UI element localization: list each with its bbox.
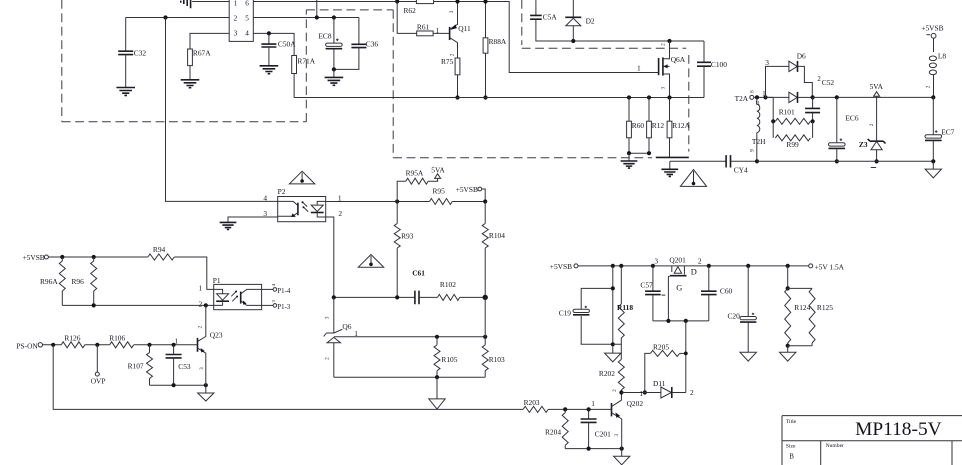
resistor R126	[61, 342, 85, 348]
svg-text:2: 2	[661, 43, 667, 46]
node junction C201 bottom	[587, 447, 591, 451]
svg-text:R126: R126	[64, 333, 80, 342]
resistor R125	[788, 287, 812, 289]
svg-text:3: 3	[234, 30, 238, 38]
svg-text:R124: R124	[794, 303, 810, 312]
node junction R88A bottom	[483, 95, 487, 99]
svg-text:R106: R106	[109, 333, 125, 342]
node junction gate-R105	[435, 335, 439, 339]
svg-text:R95: R95	[433, 187, 446, 196]
svg-text:Z3: Z3	[859, 140, 868, 149]
svg-text:D11: D11	[653, 379, 666, 388]
svg-text:2: 2	[926, 85, 932, 88]
wire pin5 net	[253, 0, 359, 18]
ground (P2 pin3)	[220, 222, 237, 229]
svg-text:1: 1	[234, 0, 238, 8]
resistor R61	[417, 31, 433, 36]
node junction R96 top	[92, 255, 96, 259]
ground (CY4)	[669, 161, 671, 169]
resistor R12	[647, 95, 651, 99]
inductor L8	[933, 38, 935, 52]
op-amp U1 (8-pin controller IC, clipped)	[229, 0, 253, 41]
svg-text:+5VSB: +5VSB	[921, 24, 943, 33]
svg-text:2: 2	[199, 299, 203, 308]
svg-text:T2A: T2A	[735, 94, 749, 103]
svg-text:R88A: R88A	[489, 37, 507, 46]
svg-text:6: 6	[245, 0, 249, 8]
resistor R205	[645, 353, 651, 392]
wire Q202 collector to D11	[621, 392, 661, 394]
node junction R88A top	[483, 0, 487, 4]
transistor Q11	[449, 27, 451, 40]
capacitor C5A	[535, 0, 537, 15]
secondary ground rail	[757, 160, 933, 162]
svg-text:R96: R96	[72, 277, 85, 286]
capacitor C50A	[268, 33, 270, 44]
node junction drain line	[667, 39, 671, 43]
svg-text:R71A: R71A	[297, 56, 315, 65]
svg-text:Q202: Q202	[627, 399, 644, 408]
polarity minus mark	[871, 167, 876, 169]
node junction C50A	[267, 31, 271, 35]
wire Q6 cathode rail	[334, 376, 485, 378]
wire P2 pin2 down	[326, 217, 334, 297]
warning triangle (left of C61)	[358, 255, 383, 268]
resistor R60	[627, 95, 631, 99]
svg-text:C60: C60	[720, 286, 733, 295]
svg-text:EC6: EC6	[845, 114, 858, 123]
svg-text:2: 2	[690, 388, 694, 397]
svg-text:3: 3	[271, 299, 276, 302]
svg-text:P2: P2	[278, 187, 286, 196]
node A junction	[395, 199, 399, 203]
transistor Q23	[198, 305, 206, 341]
svg-text:C201: C201	[595, 430, 611, 439]
node junction R105 bottom	[435, 375, 439, 379]
capacitor C20	[746, 264, 750, 268]
wire gate drop to D11	[685, 321, 687, 393]
ground bar (R12A)	[656, 156, 689, 158]
svg-text:4: 4	[263, 194, 267, 203]
svg-text:L8: L8	[938, 51, 947, 60]
capacitor C100	[703, 41, 705, 62]
resistor R102	[419, 296, 438, 298]
svg-text:3: 3	[324, 316, 330, 319]
svg-text:Size: Size	[786, 443, 796, 449]
transistor Q202	[611, 403, 613, 416]
power net +5V terminal	[809, 264, 813, 268]
resistor R96A	[61, 257, 63, 261]
transistor Q6A (MOSFET)	[663, 41, 670, 98]
wire emitter bottom rail	[565, 448, 622, 450]
wire gate bottom rail	[653, 320, 709, 322]
svg-text:R60: R60	[632, 121, 645, 130]
resistor R95	[430, 199, 453, 205]
ground (R60/R12)	[628, 153, 630, 161]
diode D6 (upper)	[789, 61, 797, 71]
resistor R99	[773, 121, 812, 138]
wire R71A to main rail	[293, 74, 295, 98]
svg-text:9: 9	[749, 149, 755, 152]
svg-text:MP118-5V: MP118-5V	[855, 419, 942, 440]
svg-text:3: 3	[654, 257, 658, 266]
node junction C57 top	[651, 264, 655, 268]
node junction Q11 collector top	[455, 0, 459, 4]
node junction C53 top	[172, 343, 176, 347]
svg-text:3: 3	[765, 58, 769, 67]
svg-text:+5V 1.5A: +5V 1.5A	[815, 262, 845, 271]
ground (C19/R118)	[605, 353, 621, 362]
svg-text:Q11: Q11	[458, 24, 471, 33]
svg-text:1: 1	[591, 399, 595, 408]
svg-text:Q23: Q23	[210, 331, 223, 340]
wire to P2 pin4	[166, 18, 278, 202]
optocoupler P2	[278, 197, 326, 222]
svg-text:C50A: C50A	[278, 39, 296, 48]
warning triangle (above P2)	[289, 171, 314, 184]
node junction C19/R118-a	[611, 264, 615, 268]
svg-text:T2H: T2H	[752, 137, 766, 146]
title block	[782, 416, 962, 465]
zener Z3	[868, 139, 886, 144]
node junction T2H bottom	[755, 159, 759, 163]
resistor R94	[148, 254, 175, 260]
resistor R67A	[188, 49, 193, 66]
svg-text:R62: R62	[404, 6, 417, 15]
svg-text:1: 1	[338, 193, 342, 202]
capacitor EC7	[932, 97, 934, 134]
resistor R62	[416, 0, 433, 4]
svg-text:3: 3	[449, 10, 455, 13]
warning triangle (near CY4)	[680, 170, 706, 187]
node junction R118 top	[619, 264, 623, 268]
svg-text:1: 1	[175, 337, 179, 346]
svg-text:R95A: R95A	[406, 169, 424, 178]
svg-text:B: B	[789, 452, 794, 460]
svg-text:EC7: EC7	[941, 128, 954, 137]
node junction R107 top	[147, 343, 151, 347]
svg-text:R102: R102	[440, 280, 456, 289]
wire pin6 top line to Q6A gate	[253, 2, 658, 73]
connector OVP terminal	[96, 345, 98, 372]
isolation boundary dashed line (snubber box)	[522, 0, 689, 152]
ground (Q202)	[621, 449, 623, 457]
main primary rail	[294, 97, 704, 99]
resistor R93	[396, 202, 398, 224]
ground (C32)	[116, 88, 135, 96]
svg-text:Number: Number	[826, 443, 844, 449]
svg-text:1: 1	[639, 389, 643, 398]
svg-text:Title: Title	[786, 419, 797, 425]
svg-text:1: 1	[637, 64, 641, 73]
svg-text:2: 2	[198, 325, 204, 328]
svg-text:EC8: EC8	[318, 32, 331, 41]
resistor R71A	[292, 56, 297, 74]
resistor R202	[618, 360, 624, 391]
node junction P1 pin2	[204, 303, 208, 307]
node junction R96 bottom	[92, 303, 96, 307]
svg-text:2: 2	[869, 123, 875, 126]
wire P2 pin1 to node A	[326, 201, 430, 203]
capacitor C201	[588, 409, 590, 419]
node junction gate-R103	[483, 335, 487, 339]
wire C19 loop	[581, 288, 613, 344]
node junction L8 output	[931, 95, 935, 99]
wire pin2 net	[126, 17, 230, 19]
svg-text:R93: R93	[401, 231, 414, 240]
svg-text:C32: C32	[134, 49, 147, 58]
node junction C52 bottom	[811, 119, 815, 123]
svg-text:2: 2	[234, 14, 238, 22]
svg-text:Q6: Q6	[342, 322, 351, 331]
wire +5V rail	[578, 265, 809, 267]
resistor R96	[93, 257, 95, 261]
resistor R101	[766, 97, 774, 121]
capacitor C57	[652, 266, 654, 291]
node junction pin5-a	[315, 15, 319, 19]
ground (Q23)	[205, 385, 207, 393]
svg-text:OVP: OVP	[91, 377, 106, 386]
wire D6 anode top branch	[766, 66, 789, 97]
node junction D2 bottom	[571, 39, 575, 43]
svg-text:R94: R94	[153, 245, 166, 254]
svg-text:C100: C100	[711, 60, 727, 69]
svg-text:1: 1	[436, 26, 440, 35]
svg-text:P1: P1	[213, 276, 221, 285]
node junction Q6A source	[667, 95, 671, 99]
svg-text:R204: R204	[545, 427, 561, 436]
diode D6 (lower)	[789, 92, 797, 102]
resistor R103	[484, 297, 486, 345]
node junction T2A-a	[755, 95, 759, 99]
svg-text:+5VSB: +5VSB	[550, 262, 572, 271]
svg-text:R125: R125	[817, 303, 833, 312]
svg-text:5VA: 5VA	[431, 165, 445, 174]
svg-text:2: 2	[324, 357, 330, 360]
svg-text:Q6A: Q6A	[671, 55, 686, 64]
svg-text:C5A: C5A	[543, 13, 558, 22]
svg-text:P1-3: P1-3	[277, 304, 290, 311]
capacitor EC8	[333, 18, 335, 44]
node junction C53 bottom	[172, 383, 176, 387]
capacitor C52	[812, 97, 814, 108]
svg-text:R99: R99	[786, 140, 799, 149]
ground (C20)	[740, 352, 756, 361]
node junction pin5-b	[332, 15, 336, 19]
svg-text:2: 2	[817, 76, 821, 83]
resistor R95A	[397, 181, 406, 201]
resistor R203	[523, 406, 548, 412]
resistor R124	[786, 264, 790, 268]
svg-text:Q201: Q201	[669, 256, 686, 265]
svg-text:R12A: R12A	[672, 121, 690, 130]
svg-text:R96A: R96A	[40, 277, 58, 286]
svg-text:PS-ON: PS-ON	[16, 341, 38, 350]
svg-text:C36: C36	[366, 39, 379, 48]
svg-text:1: 1	[199, 284, 203, 293]
svg-text:5VA: 5VA	[870, 82, 884, 91]
svg-text:R104: R104	[489, 231, 505, 240]
node junction Q202 emitter	[620, 447, 624, 451]
node junction fb-R93	[395, 295, 399, 299]
svg-text:R101: R101	[779, 108, 795, 117]
wire R60-R12 ground link	[629, 152, 649, 154]
svg-text:4: 4	[245, 30, 249, 38]
svg-text:P1-4: P1-4	[277, 288, 290, 295]
wire bottom return rail	[53, 345, 523, 410]
ground (secondary control)	[436, 377, 438, 399]
resistor R106	[110, 342, 134, 348]
node junction R95/R104	[483, 199, 487, 203]
svg-text:R12: R12	[652, 121, 665, 130]
wire Q6 gate line	[334, 336, 485, 338]
vertical C19 ground line	[612, 266, 614, 353]
wire R61 branch	[397, 2, 449, 34]
isolation boundary dashed line (primary control box)	[62, 0, 652, 158]
svg-text:+5VSB: +5VSB	[23, 253, 45, 262]
svg-text:3: 3	[199, 367, 205, 370]
svg-text:CY4: CY4	[734, 165, 748, 174]
svg-text:D6: D6	[797, 52, 806, 61]
ground (R124)	[787, 346, 789, 353]
svg-text:G: G	[676, 283, 682, 292]
svg-text:R203: R203	[524, 398, 540, 407]
node junction fb-left	[332, 295, 336, 299]
capacitor C53	[173, 345, 175, 355]
ground (rotated, at U1 pin 1)	[192, 1, 229, 3]
node junction PS-ON	[51, 343, 55, 347]
svg-text:2: 2	[338, 209, 342, 218]
wire P2 pin3 to ground	[228, 217, 278, 222]
wire Q201 gate	[668, 276, 670, 321]
svg-text:C57: C57	[640, 281, 653, 290]
svg-text:3: 3	[614, 433, 620, 436]
svg-text:3: 3	[661, 86, 667, 89]
diode D11	[661, 387, 672, 398]
wire P1 pin2 net	[62, 304, 213, 306]
resistor R88A	[485, 2, 487, 38]
node junction R75 bottom	[455, 95, 459, 99]
svg-text:D2: D2	[586, 17, 595, 26]
svg-text:C19: C19	[559, 309, 572, 318]
node junction Q202 collector	[619, 390, 623, 394]
resistor R107	[149, 345, 151, 353]
node junction EC8/C36	[332, 67, 336, 71]
svg-text:R202: R202	[599, 369, 615, 378]
wire output rail right	[813, 96, 934, 98]
svg-text:5: 5	[245, 14, 249, 22]
wire C53 bottom rail	[150, 384, 206, 386]
node junction gate rail-b	[684, 319, 688, 323]
svg-text:2: 2	[698, 257, 702, 266]
capacitor C19	[573, 309, 589, 312]
svg-text:C20: C20	[728, 311, 741, 320]
node junction C201 top	[587, 407, 591, 411]
capacitor C32	[125, 18, 127, 52]
resistor R204	[564, 409, 566, 412]
capacitor EC6	[835, 95, 839, 99]
resistor R75	[455, 58, 460, 75]
ground (EC7)	[932, 161, 934, 169]
svg-text:4: 4	[271, 283, 276, 286]
transistor Q6 (shunt regulator)	[333, 297, 335, 333]
capacitor C60	[708, 266, 710, 291]
capacitor C36	[358, 18, 360, 45]
node junction R61 branch	[395, 0, 399, 4]
wire feedback line	[334, 296, 415, 298]
node junction Q23 emitter	[204, 383, 208, 387]
node junction fb-right	[483, 295, 488, 300]
node junction R204 top	[563, 407, 567, 411]
transformer winding T2H	[756, 97, 758, 104]
capacitor C61	[415, 291, 419, 305]
node junction D6 cathode	[811, 95, 815, 99]
resistor R12A	[669, 98, 671, 122]
svg-text:R61: R61	[417, 23, 430, 32]
node junction T2A-b	[763, 95, 767, 99]
ground (C50A)	[260, 66, 279, 74]
svg-text:C52: C52	[822, 78, 835, 87]
svg-text:2: 2	[612, 389, 618, 392]
diode D2	[572, 0, 574, 17]
svg-text:R118: R118	[617, 303, 633, 312]
node junction R96A top	[60, 255, 64, 259]
svg-text:R107: R107	[128, 361, 144, 370]
node junction pin2	[163, 15, 167, 19]
svg-text:D: D	[691, 267, 697, 276]
node junction OVP	[95, 343, 99, 347]
svg-text:R205: R205	[653, 343, 669, 352]
capacitor CY4	[670, 160, 726, 162]
resistor R105	[436, 337, 438, 345]
svg-text:8: 8	[749, 90, 755, 93]
svg-text:R103: R103	[489, 355, 505, 364]
svg-text:C61: C61	[412, 269, 425, 278]
resistor R118	[620, 266, 622, 304]
svg-text:R67A: R67A	[193, 48, 211, 57]
wire pin4 net	[253, 33, 294, 55]
svg-text:R75: R75	[441, 57, 454, 66]
svg-text:R105: R105	[441, 355, 457, 364]
svg-text:C53: C53	[178, 362, 191, 371]
connector P1-3	[262, 304, 274, 306]
wire pin3 to R67A	[190, 33, 229, 49]
resistor R104	[484, 202, 486, 224]
connector P1-4	[262, 288, 274, 290]
node junction gate rail-a	[666, 319, 670, 323]
node junction +5V out	[707, 264, 711, 268]
ground (EC8)	[333, 69, 335, 77]
svg-text:+5VSB: +5VSB	[456, 185, 478, 194]
optocoupler P1	[214, 284, 262, 309]
ground (R67A)	[181, 80, 200, 88]
node junction D11 anode	[643, 390, 647, 394]
